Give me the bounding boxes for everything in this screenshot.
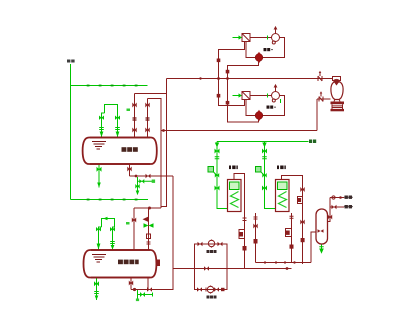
valve with stem on y=99 line — [319, 91, 323, 101]
flange on blowdown 2 — [290, 216, 294, 218]
valve on green branch 1 vertical — [135, 184, 139, 189]
tank2 drain line y=289.5 — [131, 289, 173, 291]
flange on x=148.5 — [147, 242, 151, 244]
flange on drop 2 — [262, 157, 267, 159]
valve on x=134 drop — [132, 218, 136, 223]
label group 1 — [264, 48, 273, 51]
flange on steam drop 1 — [243, 218, 247, 221]
tank2 feed drop x=134 — [133, 208, 135, 250]
end tick of green branch 2 — [152, 293, 154, 297]
valve 2 on steam drop 2 — [300, 220, 304, 225]
wire: green header 1 y=85.5 to tank1 area — [71, 85, 148, 87]
sample cooler header y=263 — [292, 262, 312, 264]
arrow mark on bridge top — [103, 217, 107, 221]
valve with stem on y=78.5 header near vessel — [318, 71, 322, 81]
arrow into tank1 right — [116, 132, 120, 138]
flange on blowdown 1 — [254, 217, 258, 219]
green branch at tank2 drain line — [138, 290, 153, 299]
flange on tank2 green drain — [94, 292, 99, 294]
label pump bottom — [207, 296, 217, 299]
flange on x=147.5 — [146, 118, 150, 120]
valve on bridge2 left leg — [96, 227, 101, 231]
red return line y=130.5 from right — [161, 130, 317, 132]
vessel neck — [334, 100, 340, 102]
valve on green branch 1 horizontal — [139, 179, 144, 184]
bottom row valve right — [214, 287, 219, 291]
bypass pocket on blowdown 2 — [286, 229, 292, 237]
valve on drop 2 — [262, 149, 267, 154]
tank 2 text — [118, 260, 139, 265]
capsule outlet riser x=330 — [328, 198, 331, 222]
tank 2 side nozzle — [157, 260, 160, 267]
blowoff square on steam drop 1 — [243, 246, 247, 251]
vent arrow above pump 1 — [274, 26, 278, 34]
meter on drop 2 — [256, 167, 267, 178]
pump 2 discharge loop — [246, 96, 285, 116]
label at header end — [309, 140, 316, 144]
wire: bridge2 right leg into tank2 — [113, 227, 115, 250]
boiler 2 shell — [276, 180, 290, 212]
stand base bar — [331, 109, 345, 111]
check valve on x=218.5 lower — [217, 94, 221, 98]
pump 1 discharge loop — [246, 38, 285, 58]
strainer drop 2 up to header — [219, 79, 245, 106]
wire: green main riser x=70.5 — [70, 64, 72, 200]
top row pump — [208, 239, 214, 248]
green tick right of pump 2 — [280, 99, 282, 103]
boiler 1 steam riser — [234, 174, 245, 269]
valve on green branch 2 — [140, 292, 145, 297]
arrow into tank2 right — [111, 245, 115, 250]
tank2 drain drop x=131 — [130, 278, 132, 290]
boiler 1 window — [230, 182, 240, 190]
check valve blob on x=148.5 — [143, 217, 149, 223]
junction dots on header — [199, 77, 229, 80]
top row valve left — [198, 242, 203, 246]
valve 2 on drop 1 — [215, 186, 220, 191]
inlet arrow group 2 — [233, 93, 243, 97]
sample vessel drop x=311 — [311, 232, 316, 263]
junction dot right end — [286, 267, 289, 270]
boiler 1 shell — [228, 180, 242, 212]
flange on left leg — [99, 128, 104, 130]
sample vessel capsule — [316, 209, 328, 244]
stand top bar — [331, 102, 345, 105]
inlet arrow group 1 — [233, 35, 243, 39]
green drop to boiler 2 — [265, 142, 277, 209]
valve on left leg — [99, 116, 104, 120]
branch y=93.5 to tank1 feed left — [135, 93, 167, 95]
valve on tank2 drain — [129, 281, 133, 286]
branch y=98.5 to tank1 feed right — [148, 98, 162, 100]
tank 1 level mark — [92, 142, 106, 150]
valve lower on x=147.5 — [145, 128, 149, 133]
wire strainer to pump 1 — [250, 37, 272, 39]
green drop to boiler 1 — [217, 142, 228, 209]
tank 1 shell — [83, 138, 157, 165]
tank1 drain line y=176 — [130, 175, 174, 177]
label stub 2 — [344, 205, 353, 208]
flange on bridge2 right leg — [110, 242, 115, 244]
flange on right leg — [115, 128, 120, 130]
standby pump 2 (filled) — [255, 110, 263, 121]
square on blowdown 2 — [290, 245, 294, 249]
feed pump box frame — [195, 244, 228, 290]
blowdown header y=262.5 — [256, 262, 292, 264]
valve on right leg — [115, 116, 120, 120]
end square of green branch 2 — [136, 299, 139, 302]
tank2 feed header y=208 — [134, 207, 161, 209]
boiler 2 label — [277, 166, 286, 170]
junction dot tank2 drain — [133, 288, 136, 291]
valve on tank1 drain line — [146, 174, 151, 178]
junction dot on return line — [162, 129, 165, 132]
vessel funnel — [333, 81, 340, 86]
bottom row valve left — [197, 287, 202, 291]
boiler 2 window — [278, 182, 288, 190]
valve on tank2 green drain — [94, 281, 99, 286]
blowoff square on steam drop 2 — [301, 238, 305, 242]
wire: bridge2 left leg into tank2 — [99, 227, 102, 250]
valve on drop 1 — [215, 149, 220, 154]
vessel lower feed line y=99 — [317, 98, 331, 100]
green drain below tank2 — [96, 278, 98, 301]
drop from loop 1 to header — [228, 62, 259, 79]
tank1 feed drop x=147.5 — [147, 99, 149, 138]
vessel cap — [333, 77, 341, 81]
mark inside capsule — [318, 229, 324, 232]
green tick before pump 2 — [267, 94, 269, 98]
valve lower on x=134.5 — [132, 128, 136, 133]
boiler 2 blowdown pipe — [291, 213, 293, 263]
bottom row pump — [207, 285, 213, 294]
strainer group 2 — [242, 92, 250, 100]
suction main vertical x=173 — [172, 176, 174, 290]
tank1 feed drop x=134.5 — [134, 94, 136, 138]
valve on capsule riser — [328, 215, 332, 220]
junction dot on tank1 drain — [135, 175, 138, 178]
valve on steam drop 2 — [300, 187, 304, 192]
tank1 drain drop x=129.5 — [129, 165, 131, 177]
valve on tank1 green drain — [97, 167, 102, 172]
valve 2 on drop 2 — [262, 186, 267, 191]
valve on blowdown 1 — [253, 224, 257, 229]
valve on bridge2 right leg — [110, 227, 115, 231]
wire: bridge right leg down into tank1 — [117, 113, 119, 138]
pump 2 circle — [272, 92, 280, 103]
arrow into tank1 left — [100, 132, 104, 138]
ticks on green header 1 — [87, 85, 138, 87]
boiler 1 coil — [231, 192, 239, 208]
tank 2 level mark — [92, 255, 106, 263]
green boiler feed header y=141.5 — [217, 141, 309, 143]
top row valve right — [218, 242, 223, 246]
green tick before pump 1 — [267, 36, 269, 40]
tank2 feed drop x=148.5 — [148, 208, 150, 250]
wire strainer to pump 2 — [250, 95, 272, 97]
capsule stub line 1 — [330, 196, 344, 199]
check valve on x=218.5 upper — [217, 59, 221, 63]
valve on middle line in box — [204, 266, 209, 270]
drop from loop 2 up to header — [228, 79, 259, 123]
tank 1 text — [122, 147, 138, 152]
green branch at tank1 drain line — [138, 177, 156, 191]
stand legs and rungs — [332, 104, 343, 109]
strainer group 1 — [242, 34, 250, 42]
flange on drop 1 — [215, 157, 220, 159]
square on blowdown 1 — [254, 239, 258, 244]
valve on tank2 drain line — [147, 287, 152, 291]
tiny green tag right of bridge — [127, 109, 131, 112]
valve upper on x=147.5 — [145, 103, 149, 108]
pump 1 circle — [272, 34, 280, 45]
arrow end of tank2 green drain — [95, 296, 99, 301]
junction dot on cooler header — [293, 261, 295, 263]
red pump discharge header y=78.5 — [167, 78, 333, 80]
boiler 1 blowdown pipe — [255, 213, 257, 263]
green drain below tank1 — [98, 165, 100, 188]
ticks on blowdown header — [265, 261, 285, 264]
wire: bridge left leg down into tank1 — [102, 113, 105, 138]
tank2 drain drop x=148 — [147, 278, 149, 290]
green valve crossing x=148.5 — [144, 223, 154, 228]
arrow into tank2 left — [97, 244, 101, 250]
valve on stub 2 — [332, 205, 337, 209]
green arrow below capsule — [319, 245, 324, 254]
bottom row tick — [205, 288, 207, 292]
pump suction line y=268.5 through box — [173, 268, 292, 270]
red vertical x=161 — [160, 98, 162, 208]
ticks on boiler feed header — [215, 143, 267, 148]
valve upper on x=134.5 — [132, 103, 136, 108]
label group 2 — [267, 106, 276, 109]
bottom row end piece — [221, 288, 225, 291]
tank 2 straight top/bottom emphasis — [91, 250, 150, 278]
boiler 1 label — [229, 166, 238, 170]
valve on tank1 drain — [127, 167, 131, 172]
arrow end of green branch 1 down — [136, 191, 140, 196]
flange on x=134.5 — [133, 118, 137, 120]
wire: green header 2 y=199.5 to tank2 area — [71, 199, 149, 201]
arrow end of tank1 green drain — [97, 183, 101, 188]
red vertical x=166.5 down from header — [161, 79, 167, 207]
tank 1 straight top/bottom emphasis — [90, 138, 150, 165]
tank 2 shell — [84, 250, 157, 278]
vessel body — [331, 82, 343, 100]
green loop bridge above tank2 — [102, 219, 115, 228]
green loop bridge above tank1 — [105, 105, 118, 114]
capsule stub line 2 — [330, 206, 344, 208]
meter on drop 1 — [208, 167, 219, 178]
standby pump 1 (filled) — [255, 52, 263, 63]
node label: raw water inlet — [67, 60, 75, 63]
strainer square on x=148.5 — [147, 234, 151, 239]
bypass pocket on steam drop 1 — [239, 230, 245, 239]
label stub 1 — [344, 196, 353, 199]
boiler 2 coil — [279, 192, 287, 208]
boiler 2 steam riser — [282, 176, 303, 265]
red vertical x=317 up to vessel line — [316, 99, 318, 131]
check valve on x=227.5 upper — [226, 70, 230, 74]
label pump top — [207, 250, 217, 253]
check valve on x=227.5 lower — [226, 101, 230, 105]
tiny green tick right of bridge2 — [126, 222, 130, 225]
vent arrow above pump 2 — [274, 84, 278, 92]
end square of green branch 1 — [152, 180, 155, 183]
junction dot tank2 header — [148, 207, 151, 210]
bypass pocket on steam drop 2 — [298, 197, 303, 204]
ticks on green header 2 — [87, 199, 138, 201]
strainer drop 1 to header — [219, 42, 245, 79]
